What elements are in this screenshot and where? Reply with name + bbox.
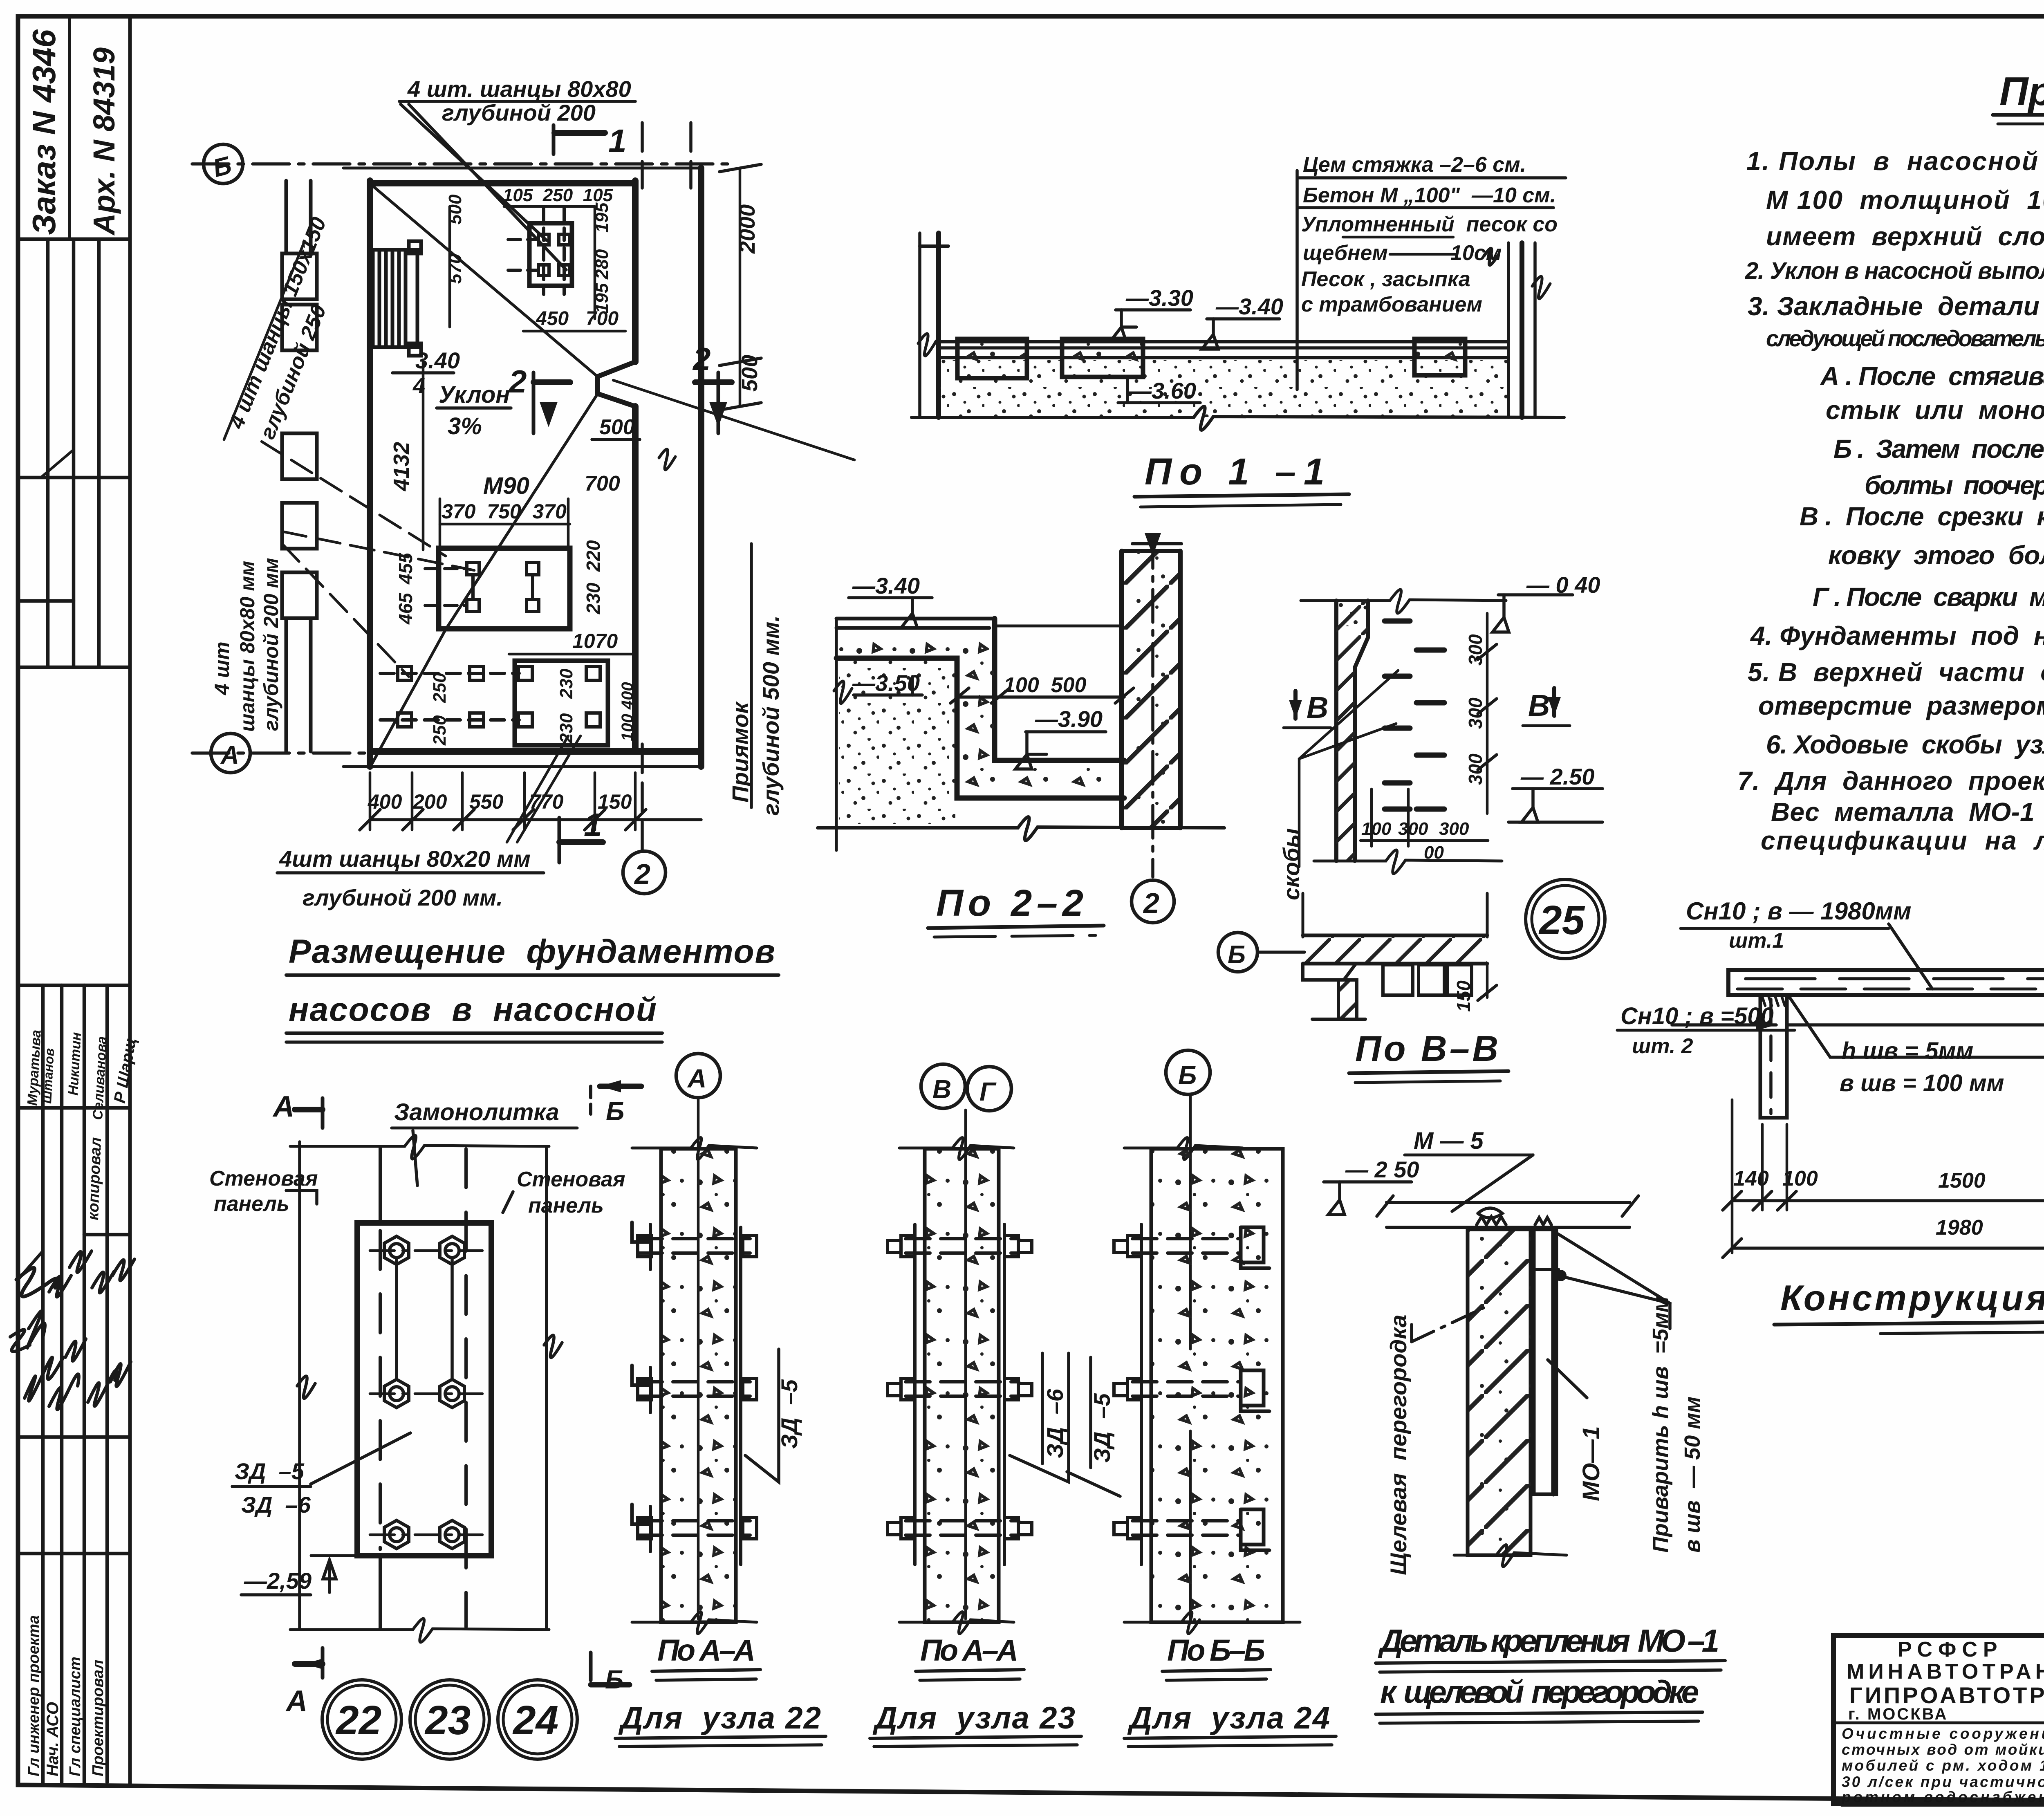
svg-text:Б: Б [606, 1096, 624, 1126]
node circles 22 23 24 [322, 1680, 401, 1759]
svg-text:Примечания: Примечания [1999, 69, 2044, 114]
svg-text:4: 4 [412, 374, 425, 398]
floor level line to wall [995, 625, 1122, 628]
svg-text:570: 570 [445, 253, 465, 284]
bottom anchor bolt field [380, 661, 608, 745]
right wall of section 1-1 [1507, 243, 1510, 417]
svg-text:А: А [272, 1090, 294, 1123]
svg-text:РСФСР: РСФСР [1898, 1638, 2003, 1661]
svg-text:следующей последовательности:: следующей последовательности: [1766, 325, 2044, 351]
svg-text:00: 00 [1424, 843, 1444, 863]
bolts uzel 23 both sides [888, 1235, 1032, 1539]
svg-text:250: 250 [430, 673, 450, 703]
axis circle А [211, 733, 250, 773]
svg-text:300: 300 [1465, 697, 1486, 729]
svg-text:400: 400 [368, 790, 402, 813]
svg-text:ЗД –5: ЗД –5 [1089, 1393, 1115, 1463]
partition wall hatched [1468, 1229, 1531, 1555]
svg-text:—3.40: —3.40 [1215, 294, 1283, 319]
svg-text:1. Полы в насосной и корри: 1. Полы в насосной и корридоре выполняют… [1746, 146, 2044, 176]
tie line between legs [1787, 1023, 2044, 1027]
svg-text:ковку этого болта с пласти: ковку этого болта с пластиной . [1828, 540, 2044, 570]
svg-text:стык или монолитится стена.: стык или монолитится стена. [1826, 395, 2044, 425]
svg-text:100: 100 [1361, 819, 1392, 839]
bolts: hex with circles [384, 1236, 464, 1549]
circled 2 [1132, 880, 1174, 923]
В-В bottom slab [1303, 934, 1487, 937]
svg-text:3%: 3% [448, 413, 482, 439]
left edge of section 2-2 [835, 619, 838, 850]
corridor partition wall [632, 181, 639, 362]
L-shaped concrete outline [836, 619, 995, 628]
svg-text:25: 25 [1538, 897, 1585, 943]
svg-text:30 л/сек при частичном обо-: 30 л/сек при частичном обо- [1842, 1773, 2044, 1790]
svg-text:глубиной 200 мм.: глубиной 200 мм. [303, 885, 503, 910]
svg-text:По 1 –1: По 1 –1 [1145, 451, 1325, 493]
svg-text:Г: Г [979, 1077, 997, 1106]
column section узел 23 [899, 1064, 1014, 1634]
svg-text:4 шт: 4 шт [211, 641, 233, 695]
bottom break line [1314, 850, 1502, 874]
axis line А horizontal [192, 751, 450, 755]
svg-text:Вес металла МО-1 учтен неп: Вес металла МО-1 учтен непосредственно в… [1771, 797, 2044, 827]
svg-text:4132: 4132 [389, 442, 414, 491]
svg-text:4. Фундаменты под насосы вы: 4. Фундаменты под насосы выполнять из бе… [1750, 621, 2044, 650]
bolts and brackets uzel 22 [632, 1222, 757, 1539]
svg-text:Бетон М „100" —10 см.: Бетон М „100" —10 см. [1303, 184, 1556, 207]
svg-text:шт.1: шт.1 [1729, 929, 1784, 953]
plan bottom wall [370, 748, 701, 755]
sump trapezoid [598, 362, 635, 406]
svg-text:— 2.50: — 2.50 [1520, 764, 1595, 789]
sand band with stipple [940, 360, 1508, 417]
svg-text:Р Шарщ: Р Шарщ [111, 1036, 140, 1104]
svg-text:В: В [932, 1074, 951, 1104]
anchor rods [395, 1258, 398, 1379]
top slab double line [1387, 1202, 1629, 1227]
svg-text:1070: 1070 [572, 630, 618, 652]
svg-text:болты поочередно срезаются: болты поочередно срезаются вровень с пла… [1865, 471, 2044, 500]
signature scribbles [25, 1357, 63, 1401]
top anchor bolt group [508, 209, 572, 294]
concrete band stipples [838, 630, 989, 657]
svg-text:1500: 1500 [1938, 1169, 1986, 1193]
leaders from 80x20 label [507, 736, 568, 842]
svg-text:копировал: копировал [85, 1137, 105, 1220]
svg-text:мобилей с рм. ходом 10, 20 и: мобилей с рм. ходом 10, 20 и [1842, 1757, 2044, 1774]
column section узел 22 [632, 1054, 757, 1634]
svg-text:в шв = 100 мм: в шв = 100 мм [1840, 1070, 2004, 1096]
svg-text:1: 1 [584, 807, 602, 843]
svg-text:6. Ходовые скобы узла 25 у: 6. Ходовые скобы узла 25 учтены на листе… [1766, 730, 2044, 759]
section mark 1 bottom [558, 818, 561, 863]
ground bottom line with break [818, 817, 1224, 841]
svg-text:Для узла 23: Для узла 23 [872, 1701, 1075, 1735]
svg-text:шанцы 80х80 мм: шанцы 80х80 мм [236, 561, 259, 732]
org cell [1847, 1638, 2044, 1724]
svg-text:В . После срезки каждого б: В . После срезки каждого болта произвест… [1800, 502, 2044, 531]
Б circle with leader [1218, 933, 1257, 972]
top panel edge line [290, 1135, 549, 1159]
plate [357, 1223, 491, 1556]
svg-text:24: 24 [512, 1697, 558, 1743]
svg-text:300: 300 [1465, 634, 1486, 666]
section mark 2 left [532, 372, 536, 433]
svg-text:к щелевой перегородке: к щелевой перегородке [1380, 1674, 1699, 1710]
svg-text:Приварить h шв =5мм: Приварить h шв =5мм [1648, 1296, 1673, 1553]
leader dash-dot from перегородка [1412, 1308, 1484, 1342]
axis line Б horizontal [192, 162, 732, 166]
left wall edge [918, 233, 921, 417]
svg-text:1980: 1980 [1936, 1216, 1983, 1240]
svg-text:2: 2 [508, 363, 527, 399]
svg-text:4шт шанцы 80х20 мм: 4шт шанцы 80х20 мм [279, 846, 531, 872]
svg-text:По В–В: По В–В [1355, 1028, 1498, 1069]
floor slope diagonal to corner [372, 630, 446, 764]
svg-text:В: В [1528, 688, 1550, 722]
svg-text:ЗД –6: ЗД –6 [241, 1492, 311, 1518]
svg-text:230: 230 [583, 583, 604, 614]
left leg [1760, 995, 1787, 1118]
circled 2 bottom [623, 851, 666, 894]
svg-text:200: 200 [412, 790, 447, 813]
svg-text:А: А [220, 741, 239, 769]
svg-text:насосов в насосной: насосов в насосной [289, 991, 657, 1028]
leader from sump [613, 380, 854, 460]
hidden panel edges dashed [379, 1231, 382, 1549]
sand band bottom line [912, 406, 1564, 430]
svg-text:По 2–2: По 2–2 [936, 882, 1083, 924]
svg-text:Песок , засыпка: Песок , засыпка [1301, 267, 1470, 291]
floor slope diagonal upper [373, 186, 596, 375]
svg-text:ЗД –6: ЗД –6 [1042, 1388, 1068, 1458]
svg-text:3. Закладные детали ЗД-5 и: 3. Закладные детали ЗД-5 и ЗД-6 устанавл… [1748, 291, 2044, 321]
svg-text:250: 250 [430, 715, 450, 746]
svg-text:ЗД –5: ЗД –5 [235, 1458, 305, 1484]
svg-text:h шв = 5мм: h шв = 5мм [1842, 1038, 1973, 1064]
svg-text:Стеновая: Стеновая [209, 1167, 318, 1190]
concrete block 3 [1414, 339, 1465, 375]
svg-text:Никитин: Никитин [65, 1032, 84, 1096]
svg-text:Очистные сооружения для: Очистные сооружения для [1842, 1725, 2044, 1742]
svg-text:450: 450 [536, 308, 569, 330]
leaders to weld note [1558, 1276, 1670, 1329]
svg-text:1: 1 [608, 123, 627, 159]
svg-text:150: 150 [1453, 980, 1474, 1012]
svg-text:370 750 370: 370 750 370 [442, 500, 567, 523]
plan bottom dimension chain [370, 818, 701, 821]
svg-text:А: А [687, 1064, 706, 1093]
svg-text:300: 300 [1465, 753, 1486, 785]
svg-text:Стеновая: Стеновая [517, 1168, 625, 1191]
svg-text:В: В [1307, 691, 1328, 724]
leaders from 150x150 label [262, 442, 446, 556]
wall bottom break [1454, 1545, 1567, 1567]
svg-text:А: А [285, 1685, 307, 1717]
svg-text:— 2 50: — 2 50 [1345, 1157, 1419, 1182]
svg-text:спецификации на листе АС-1: спецификации на листе АС-1. ( Вес 1шт = … [1761, 826, 2044, 855]
svg-text:г. МОСКВА: г. МОСКВА [1848, 1705, 1948, 1723]
svg-text:По А–А: По А–А [920, 1633, 1018, 1667]
svg-text:2. Уклон в насосной выполняетс: 2. Уклон в насосной выполняется цементно… [1745, 258, 2044, 284]
circled 25 [1526, 879, 1605, 959]
floor slope diagonal lower [446, 394, 598, 630]
svg-text:отверстие размером 300×300: отверстие размером 300×300 с сеткой N 10 [1758, 691, 2044, 720]
svg-text:Проектировал: Проектировал [90, 1660, 107, 1776]
skoba rungs [1385, 621, 1444, 809]
svg-text:23: 23 [424, 1697, 471, 1743]
wall axis dash-dot [1151, 536, 1154, 877]
wall with hatch [1336, 601, 1368, 861]
svg-text:глубиной 200: глубиной 200 [442, 100, 596, 126]
svg-text:—3.30: —3.30 [1125, 285, 1193, 311]
svg-text:500: 500 [599, 415, 635, 439]
section mark 1 top [552, 125, 556, 154]
top break line [1301, 590, 1506, 613]
svg-text:—3.60: —3.60 [1128, 378, 1196, 404]
weld trapezoid callout [1790, 998, 2044, 1057]
svg-text:Сн10 ; в — 1980мм: Сн10 ; в — 1980мм [1686, 897, 1911, 925]
svg-text:2: 2 [692, 341, 710, 377]
svg-text:105 250 105: 105 250 105 [503, 185, 613, 205]
svg-text:ГИПРОАВТОТРАНС: ГИПРОАВТОТРАНС [1849, 1682, 2044, 1708]
svg-text:Б: Б [210, 151, 234, 183]
svg-text:2: 2 [1143, 887, 1159, 919]
svg-text:По Б–Б: По Б–Б [1167, 1633, 1265, 1667]
blocks under slab [1383, 965, 1413, 995]
svg-text:А . После стягивания болтов: А . После стягивания болтов замоноличива… [1820, 361, 2044, 391]
svg-text:Б: Б [605, 1665, 623, 1694]
svg-text:700: 700 [585, 472, 620, 495]
svg-text:100 400: 100 400 [619, 682, 637, 741]
svg-text:панель: панель [528, 1194, 604, 1217]
svg-text:22: 22 [335, 1697, 381, 1743]
svg-text:глубиной 200 мм: глубиной 200 мм [260, 558, 282, 731]
side walls above slab [1302, 893, 1304, 937]
svg-text:имеет верхний слой из уплот: имеет верхний слой из уплотненного щебня… [1766, 222, 2044, 251]
plan left wall [367, 181, 373, 767]
svg-text:700: 700 [586, 308, 619, 330]
signature table verticals [41, 985, 45, 1782]
svg-text:Нач. АСО: Нач. АСО [44, 1702, 62, 1776]
stamp sub-table horizontals [18, 476, 130, 480]
plan top wall [343, 167, 701, 170]
svg-text:300: 300 [1398, 819, 1428, 839]
svg-text:в шв — 50 мм: в шв — 50 мм [1680, 1397, 1705, 1553]
svg-text:Г . После сварки место свар: Г . После сварки место сварки зачистить … [1813, 582, 2044, 612]
leader to beam [1889, 924, 1932, 989]
svg-text:Арх. N 84319: Арх. N 84319 [87, 47, 121, 236]
vertical edges [298, 1142, 301, 1630]
svg-text:Б: Б [1178, 1060, 1197, 1090]
svg-text:5. В верхней части дверей: 5. В верхней части дверей насосной и кор… [1748, 657, 2044, 687]
МО-1 label leader [1548, 1360, 1587, 1398]
svg-text:Для узла 24: Для узла 24 [1127, 1701, 1330, 1735]
svg-text:Размещение фундаментов: Размещение фундаментов [289, 933, 775, 970]
svg-text:Цем стяжка –2–6 см.: Цем стяжка –2–6 см. [1303, 153, 1526, 177]
svg-text:с трамбованием: с трамбованием [1301, 293, 1482, 316]
section mark 2 right [717, 372, 720, 433]
svg-text:М 100 толщиной 10 ст. по у: М 100 толщиной 10 ст. по уплотненному пе… [1766, 185, 2044, 215]
svg-text:—3.40: —3.40 [852, 573, 920, 599]
svg-text:Деталь крепления МО –1: Деталь крепления МО –1 [1378, 1623, 1719, 1659]
floor screed lines [940, 340, 1508, 343]
svg-text:глубиной 500 мм.: глубиной 500 мм. [758, 615, 784, 816]
svg-text:панель: панель [214, 1192, 289, 1216]
svg-text:7. Для данного проекта изг: 7. Для данного проекта изготовить 3 шт. … [1737, 766, 2044, 796]
bottom panel edge line [290, 1619, 549, 1642]
concrete block 2 [1062, 339, 1143, 377]
bolts uzel 24 with corner angles [1114, 1227, 1269, 1550]
leaders from 80x80 label [282, 531, 474, 570]
svg-text:М90: М90 [483, 473, 529, 499]
svg-text:МО—1: МО—1 [1578, 1426, 1605, 1501]
svg-text:4 шт. шанцы 80х80: 4 шт. шанцы 80х80 [407, 76, 631, 102]
svg-text:Гл инженер проекта: Гл инженер проекта [25, 1615, 43, 1776]
svg-text:455: 455 [395, 552, 416, 585]
left stamp strip main divider [128, 16, 132, 1784]
weld marks on slab [1477, 1217, 1506, 1225]
materials note column line [1295, 170, 1299, 390]
leader arrow into left leg [1672, 1023, 1776, 1027]
signature table top [18, 984, 130, 987]
svg-text:Конструкция МО–1: Конструкция МО–1 [1780, 1278, 2044, 1318]
right wall hatched [1122, 551, 1180, 828]
svg-text:Б . Затем после достижения: Б . Затем после достижения бетоном проек… [1833, 434, 2044, 464]
svg-text:Заказ N 4346: Заказ N 4346 [26, 29, 62, 235]
svg-text:—2,59: —2,59 [244, 1568, 312, 1594]
svg-text:220: 220 [583, 540, 604, 572]
svg-text:Приямок: Приямок [727, 701, 753, 803]
outer wall panels left [282, 181, 317, 751]
sand stipple left region [839, 660, 955, 824]
leaders from скобы [1299, 670, 1398, 759]
bolt centerlines [370, 1249, 482, 1252]
svg-text:Уклон: Уклон [439, 381, 510, 408]
svg-text:Для узла 22: Для узла 22 [618, 1701, 821, 1735]
svg-text:сточных вод от мойки авто-: сточных вод от мойки авто- [1842, 1741, 2044, 1758]
concrete block 1 [957, 339, 1027, 378]
beam top bar [1728, 970, 2044, 995]
svg-text:Б: Б [1228, 941, 1246, 969]
svg-text:230: 230 [556, 668, 576, 699]
svg-text:шт. 2: шт. 2 [1632, 1034, 1693, 1058]
ladder niche [373, 241, 421, 356]
svg-text:100 500: 100 500 [1004, 673, 1086, 697]
svg-text:Щелевая перегородка: Щелевая перегородка [1385, 1315, 1411, 1575]
dim chain 300s [1486, 613, 1489, 814]
svg-text:Штанов: Штанов [39, 1048, 57, 1104]
wavy break in corridor [659, 449, 675, 470]
corridor right wall [698, 168, 704, 767]
wall stub below [1338, 980, 1357, 1019]
stamp top cell divider [68, 16, 71, 239]
pump foundation M90 [439, 548, 570, 629]
svg-text:300: 300 [1439, 819, 1469, 839]
leader lines to top bolts [401, 104, 547, 240]
svg-text:Гл специалист: Гл специалист [67, 1657, 84, 1776]
stamp sub-table verticals [46, 239, 50, 667]
svg-text:—3.50: —3.50 [852, 670, 920, 696]
svg-text:М — 5: М — 5 [1414, 1128, 1484, 1154]
column section узел 24 [1124, 1050, 1300, 1634]
svg-text:500: 500 [445, 194, 465, 224]
stamp top cell bottom [18, 238, 130, 241]
svg-text:МИНАВТОТРАНС: МИНАВТОТРАНС [1847, 1660, 2044, 1684]
column axis dashed verticals [641, 123, 644, 188]
svg-text:—3.90: —3.90 [1035, 706, 1103, 732]
МО-1 channel [1534, 1229, 1556, 1494]
svg-text:По А–А: По А–А [657, 1633, 755, 1667]
axis circle Б [204, 144, 243, 184]
svg-text:2: 2 [634, 858, 650, 890]
svg-text:Замонолитка: Замонолитка [394, 1099, 559, 1125]
svg-text:465: 465 [395, 592, 416, 625]
signature table horizontals [18, 1106, 130, 1110]
svg-text:Уплотненный песок со: Уплотненный песок со [1301, 213, 1558, 236]
